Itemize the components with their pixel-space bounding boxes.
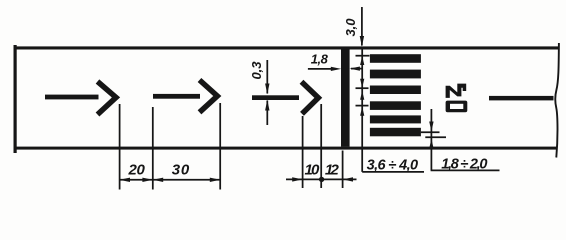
- chain tick stripe3 top: [356, 87, 369, 89]
- comb stripe 1: [370, 54, 421, 63]
- arrow A3 chevron head: [302, 82, 319, 114]
- extension line arrow2 start: [152, 107, 154, 190]
- arrowhead 3,0 down: [360, 36, 364, 47]
- svg-text:1,8 ÷ 2,0: 1,8 ÷ 2,0: [441, 156, 487, 172]
- comb stripe 5: [370, 115, 421, 123]
- arrowhead 1,8 left: [350, 67, 360, 71]
- arrowhead chain down at stripe3: [360, 79, 364, 88]
- dim 0,3 vertical leader lower: [266, 101, 268, 126]
- underline 3,6-4,0: [362, 171, 424, 173]
- junction dot 10/12: [319, 177, 324, 182]
- dim 1,8-2,0 tick upper: [421, 131, 440, 133]
- arrow A1 shaft bar: [45, 95, 99, 100]
- dim 1,8 leader left: [308, 68, 333, 70]
- arrowhead dim20 right: [142, 178, 152, 182]
- svg-text:20: 20: [128, 162, 146, 179]
- comb stripe 6: [370, 128, 421, 137]
- svg-text:3,6 ÷ 4,0: 3,6 ÷ 4,0: [367, 157, 419, 173]
- dim 1,8-2,0 tick lower: [425, 136, 446, 138]
- dim 0,3 vertical leader upper: [266, 60, 268, 94]
- transverse bar marking (1,8 wide): [341, 49, 350, 146]
- arrowhead 0,3 up: [265, 100, 269, 111]
- dim 1,8 leader right: [351, 68, 362, 70]
- arrowhead dim30 left: [153, 178, 163, 182]
- arrowhead 0,3 down: [265, 84, 269, 95]
- arrowhead dim12 outside left-pointing: [343, 177, 353, 181]
- arrowhead chain up below stripe3: [360, 91, 364, 100]
- svg-text:3,0: 3,0: [343, 18, 358, 37]
- arrow A2 chevron head: [200, 80, 218, 112]
- comb stripe 4: [370, 101, 421, 110]
- extension line bar left: [342, 151, 344, 189]
- extension line arrow3 tip: [320, 104, 322, 188]
- comb stripe 3: [370, 86, 421, 95]
- svg-text:12: 12: [325, 162, 340, 179]
- arrowhead 1,8 right: [331, 67, 341, 71]
- arrowhead dim10 outside right-pointing: [292, 177, 302, 181]
- arrowhead chain up at stripe1: [360, 56, 364, 65]
- dimension line 20/30: [120, 179, 221, 181]
- arrow A3 shaft bar: [252, 95, 299, 100]
- chain tick stripe4 top: [356, 105, 369, 107]
- arrowhead 1,8-2,0 down: [429, 122, 433, 132]
- comb stripe 2: [370, 70, 421, 79]
- svg-text:1,8: 1,8: [311, 51, 329, 66]
- road band right break line (wavy): [555, 43, 559, 158]
- dim 3,0 leader: [361, 7, 363, 46]
- numeral 20 digit 0 (rotated): [446, 101, 468, 113]
- svg-text:30: 30: [172, 162, 190, 179]
- road band bottom edge: [14, 147, 557, 150]
- dim 1,8-2,0 vertical leader: [430, 109, 432, 170]
- extension line arrow1 tip: [119, 104, 121, 190]
- road band top edge: [14, 46, 560, 49]
- arrowhead chain up at stripe4: [360, 107, 364, 116]
- lane line long dash: [489, 96, 554, 101]
- underline 1,8-2,0: [431, 169, 500, 171]
- chain dimension line (stripe pitches): [361, 50, 363, 172]
- svg-text:10: 10: [305, 162, 321, 179]
- arrowhead dim30 right: [210, 178, 220, 182]
- numeral 20 digit 2 (rotated): [446, 84, 467, 98]
- arrowhead 1,8-2,0 up: [429, 139, 433, 149]
- svg-text:0,3: 0,3: [249, 61, 264, 80]
- extension line arrow2 tip: [219, 103, 221, 190]
- road band left edge: [14, 45, 17, 153]
- arrow A2 shaft bar: [153, 94, 200, 99]
- dimension line 10/12: [286, 178, 357, 180]
- arrow A1 chevron head: [98, 82, 117, 115]
- extension line chevron3 start: [302, 116, 304, 188]
- chain tick stripe1 top: [356, 55, 370, 57]
- arrowhead dim20 left: [120, 178, 130, 182]
